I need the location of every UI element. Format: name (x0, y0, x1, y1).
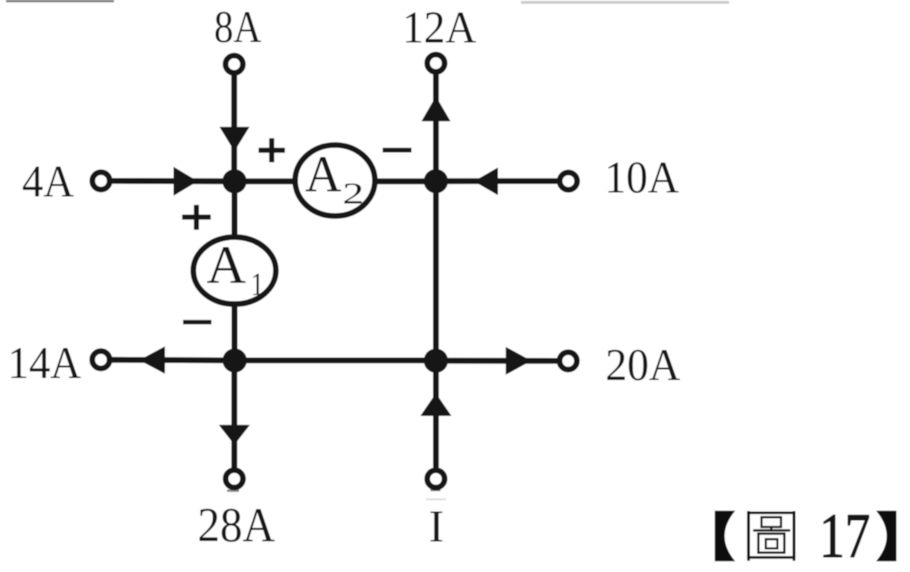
wire I lead (433, 360, 439, 467)
svg-text:10A: 10A (605, 151, 680, 202)
svg-text:8A: 8A (214, 1, 262, 52)
svg-text:14A: 14A (8, 337, 82, 388)
terminal 20A (560, 352, 577, 369)
svg-text:1: 1 (251, 267, 264, 303)
wire 28A lead (231, 360, 237, 467)
wire right (node2 to node4) (433, 181, 439, 360)
arrow on 28A lead (down) (219, 425, 250, 445)
wire top (node1 to node2 through A2) (235, 178, 436, 184)
artifact line top-middle (521, 1, 729, 4)
artifact dash above I (431, 489, 441, 492)
ammeter A2 body (295, 145, 375, 216)
artifact dash above 28A (227, 490, 239, 492)
terminal 10A (560, 172, 577, 189)
wire 12A lead (433, 74, 439, 182)
svg-text:2: 2 (343, 176, 365, 211)
wire 14A lead (112, 357, 235, 363)
arrow on 20A lead (right) (506, 347, 532, 375)
terminal 4A (92, 172, 109, 189)
wire 8A lead (231, 75, 237, 182)
ammeter A1 body (193, 237, 276, 304)
node 4 (bottom-right junction) (424, 349, 448, 373)
terminal 14A (92, 351, 109, 368)
terminal 8A (226, 55, 243, 72)
wire 20A lead (436, 358, 557, 364)
arrow on 12A lead (up) (422, 96, 451, 121)
node 2 (top-right junction) (424, 169, 448, 193)
plus sign (A2 left polarity) (259, 138, 285, 162)
wire 4A lead (112, 178, 235, 184)
wire 10A lead (436, 178, 558, 184)
svg-text:A: A (305, 147, 342, 204)
svg-text:17: 17 (819, 501, 870, 571)
arrow on 8A lead (down) (220, 127, 250, 151)
arrow on 10A lead (left) (474, 168, 498, 196)
plus sign (A1 top polarity) (182, 205, 211, 230)
wire left (node1 to node3 through A1) (232, 181, 238, 360)
wire bottom (node3 to node4) (235, 357, 436, 363)
node 1 (top-left junction) (222, 169, 246, 193)
terminal 28A (226, 470, 243, 487)
svg-text:A: A (207, 235, 247, 295)
svg-text:I: I (429, 501, 444, 552)
arrow on 4A lead (right) (174, 167, 198, 196)
figure caption character tu (drawn) (749, 511, 795, 561)
node 3 (bottom-left junction) (223, 348, 247, 372)
svg-text:4A: 4A (22, 155, 74, 206)
terminal I (427, 470, 444, 487)
svg-text:20A: 20A (605, 339, 680, 390)
terminal 12A (427, 55, 444, 72)
svg-text:12A: 12A (402, 1, 476, 52)
minus sign (A1 bottom polarity) (183, 320, 211, 324)
svg-text:28A: 28A (198, 497, 276, 552)
arrow on 14A lead (left) (139, 346, 165, 373)
arrow on I lead (up) (420, 393, 451, 416)
figure caption left bracket (715, 511, 735, 562)
artifact line top-left (6, 0, 114, 2)
figure caption right bracket (876, 511, 896, 562)
minus sign (A2 right polarity) (383, 148, 412, 153)
